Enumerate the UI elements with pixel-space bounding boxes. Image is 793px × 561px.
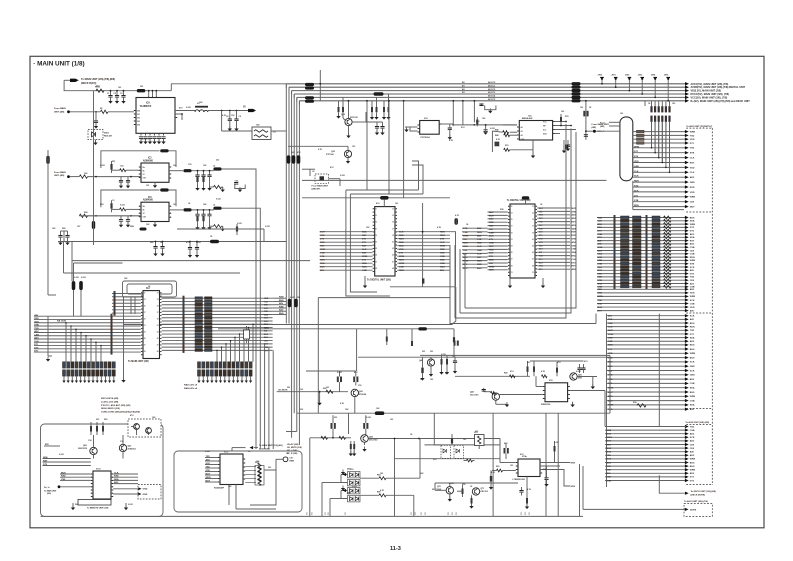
vertical drops far right of bus rows <box>255 337 257 449</box>
svg-text:RXD: RXD <box>477 243 482 245</box>
svg-text:SCK: SCK <box>690 300 695 302</box>
svg-text:CLK: CLK <box>362 249 367 251</box>
ferrite bead L71 <box>522 196 530 199</box>
vertical from bus x585.9 with resistor divider <box>585 101 587 140</box>
wire <box>491 131 493 152</box>
svg-text:RXD: RXD <box>114 476 119 478</box>
wire <box>169 190 176 206</box>
svg-text:AVCC5: AVCC5 <box>488 98 496 101</box>
svg-text:VDD: VDD <box>607 477 612 479</box>
svg-text:D901: D901 <box>104 133 110 135</box>
svg-text:VDD: VDD <box>489 249 494 251</box>
svg-text:STB: STB <box>690 264 695 266</box>
transistor Q71 <box>472 488 479 495</box>
transistor Q60 <box>134 424 140 430</box>
svg-text:11: 11 <box>511 206 513 208</box>
svg-text:RXD: RXD <box>690 187 695 189</box>
svg-text:WRN: WRN <box>690 132 696 134</box>
svg-text:27: 27 <box>511 259 513 261</box>
svg-text:DTA124: DTA124 <box>359 393 367 396</box>
svg-text:SDA: SDA <box>690 220 695 223</box>
svg-text:(LCD BUS): (LCD BUS) <box>259 448 270 450</box>
svg-text:GND: GND <box>264 298 269 300</box>
transistor Q50 <box>361 435 369 443</box>
resistor pair R38 <box>371 107 373 112</box>
svg-text:R59: R59 <box>62 228 65 230</box>
wire <box>231 448 233 451</box>
wire from IC901 right <box>175 113 182 115</box>
svg-text:VDD: VDD <box>608 353 613 355</box>
wire <box>322 482 336 484</box>
IC U6 interface <box>510 204 535 278</box>
svg-text:CSB: CSB <box>690 383 695 385</box>
ground arrows under RA1 <box>63 376 65 380</box>
resistor R44 <box>533 366 535 372</box>
svg-text:31: 31 <box>511 272 513 274</box>
svg-text:BUS: BUS <box>690 345 695 347</box>
svg-text:To MAIN UNIT (4/8): To MAIN UNIT (4/8) <box>128 360 149 363</box>
wire <box>79 215 93 217</box>
capacitor C100 <box>196 242 198 248</box>
svg-text:SCK: SCK <box>264 308 269 310</box>
svg-text:WRN: WRN <box>440 246 446 248</box>
wire <box>354 397 356 414</box>
resistor C60 pair <box>350 444 352 449</box>
svg-text:17: 17 <box>511 226 513 228</box>
junctions <box>565 121 567 123</box>
svg-text:15: 15 <box>511 219 513 221</box>
CPU upper-left short rows <box>112 293 141 295</box>
svg-text:VDD: VDD <box>690 307 695 309</box>
svg-text:11: 11 <box>144 293 146 295</box>
svg-text:WRN: WRN <box>690 396 696 398</box>
svg-text:19: 19 <box>144 319 146 321</box>
svg-text:RXD: RXD <box>279 297 284 299</box>
svg-text:RDN: RDN <box>440 232 445 234</box>
svg-text:MUT: MUT <box>489 246 494 248</box>
wire loops around CPU <box>123 281 177 297</box>
IC U9 regulator <box>518 459 540 477</box>
capacitor C38 <box>376 122 378 126</box>
IC U11 EQ <box>220 454 243 485</box>
svg-text:AD3: AD3 <box>264 336 268 339</box>
svg-text:BUS: BUS <box>320 267 325 269</box>
svg-text:GND: GND <box>440 263 445 265</box>
capacitor C97 <box>155 242 157 247</box>
svg-text:R47: R47 <box>75 503 78 506</box>
capacitor C99 <box>189 242 191 248</box>
svg-text:WRN: WRN <box>463 261 469 263</box>
svg-text:RA_BUS: RA_BUS <box>57 320 67 323</box>
wire <box>499 439 501 445</box>
svg-text:IC11: IC11 <box>224 451 229 453</box>
svg-text:COM0-COM3 (2/8),(5/8),(6/8),(7: COM0-COM3 (2/8),(5/8),(6/8),(7/8),(8/8) <box>101 412 140 414</box>
svg-text:103: 103 <box>326 387 329 389</box>
svg-text:R18: R18 <box>100 204 103 206</box>
svg-text:RST: RST <box>690 240 695 242</box>
svg-text:WRN: WRN <box>608 334 614 336</box>
power bus wires (top) <box>286 83 686 85</box>
svg-text:RDN: RDN <box>440 267 445 269</box>
svg-text:CSB: CSB <box>463 232 468 234</box>
vertical drops onto R1 rows <box>651 122 653 148</box>
svg-text:TXD: TXD <box>607 470 612 472</box>
svg-text:0.022: 0.022 <box>441 354 446 356</box>
svg-text:CSB: CSB <box>489 232 494 234</box>
svg-text:2SC1740: 2SC1740 <box>470 394 479 397</box>
svg-text:C3: C3 <box>112 200 114 202</box>
svg-text:BUS: BUS <box>690 462 695 464</box>
resistor array bank RA2 <box>198 362 201 368</box>
dark cap C55 <box>565 145 568 150</box>
svg-text:RXD: RXD <box>489 222 494 224</box>
wires in dashed box <box>136 429 138 435</box>
wire <box>395 458 501 460</box>
component R67 <box>411 341 413 346</box>
svg-text:STB: STB <box>598 293 603 295</box>
svg-text:RST: RST <box>572 222 577 224</box>
svg-text:STB: STB <box>572 211 577 213</box>
vertical bus ferrite beads row1 <box>287 155 291 164</box>
svg-text:222: 222 <box>216 160 219 162</box>
capacitors under U5 <box>563 140 565 151</box>
svg-text:STB: STB <box>463 228 468 230</box>
resistor R40 <box>441 359 443 365</box>
svg-text:0.022: 0.022 <box>216 199 221 201</box>
svg-text:BUS: BUS <box>279 313 284 315</box>
staircase wires left <box>65 323 67 362</box>
dashed diode box DB2 <box>454 445 464 458</box>
connector CN-D pin rows upper <box>607 315 687 317</box>
svg-text:WRN: WRN <box>206 477 211 479</box>
transistor Q70 <box>446 487 453 494</box>
svg-text:SDA: SDA <box>320 241 325 244</box>
svg-text:0.022: 0.022 <box>352 486 357 488</box>
IC U8 audio driver <box>545 383 568 402</box>
svg-text:100: 100 <box>561 111 564 113</box>
svg-text:AIN: AIN <box>690 318 694 321</box>
resistor stack R62 <box>102 426 104 432</box>
svg-text:WRN: WRN <box>690 296 696 298</box>
svg-text:SDA: SDA <box>489 259 494 262</box>
regulator IC901 <box>136 98 175 134</box>
svg-text:222: 222 <box>140 86 143 88</box>
U6 right pin rows <box>537 207 570 209</box>
rows into IC10 <box>43 458 91 460</box>
capacitor C39 <box>382 122 384 126</box>
svg-text:35: 35 <box>532 219 534 221</box>
svg-text:To AUX UNIT (PQRSTUV): To AUX UNIT (PQRSTUV) <box>686 125 712 128</box>
svg-text:2SB: 2SB <box>578 377 582 379</box>
component C70 <box>451 439 453 444</box>
resistor R23 <box>120 169 126 172</box>
U6 left pin rows <box>488 211 508 213</box>
wire <box>441 123 453 125</box>
svg-text:CLK: CLK <box>114 473 119 475</box>
transistor Q20 <box>351 389 358 396</box>
svg-text:TXD: TXD <box>690 426 695 428</box>
svg-text:(4/8) WH_: (4/8) WH_ <box>312 188 322 191</box>
svg-text:AD3: AD3 <box>463 256 468 259</box>
svg-text:(4/8): (4/8) <box>592 126 597 129</box>
wire y391.7 <box>277 391 348 393</box>
svg-text:C2: C2 <box>114 93 116 95</box>
svg-text:AD3: AD3 <box>608 399 613 402</box>
capacitor C49 <box>485 125 487 129</box>
svg-text:GND: GND <box>598 247 603 249</box>
ground under Q50 <box>364 447 366 450</box>
svg-text:VDD: VDD <box>598 217 603 219</box>
ferrite bead L901 <box>137 89 146 92</box>
ground drops under U6 <box>509 278 511 286</box>
svg-text:AIN: AIN <box>690 309 694 312</box>
svg-text:0.022: 0.022 <box>205 451 210 453</box>
svg-text:RA02-47k x8: RA02-47k x8 <box>184 387 198 390</box>
svg-text:RDN: RDN <box>477 232 482 234</box>
resistor R301 in row <box>637 404 646 407</box>
ferrite bead L95 <box>210 240 219 244</box>
svg-text:AD3: AD3 <box>34 337 39 340</box>
svg-text:RDN: RDN <box>362 267 367 269</box>
resistor R54 <box>379 477 386 480</box>
svg-text:23: 23 <box>375 248 377 250</box>
svg-text:STB: STB <box>34 325 39 327</box>
component C71 <box>490 476 492 482</box>
resistor array bank RA1 <box>63 362 66 368</box>
connector capsule CN-A <box>620 117 633 181</box>
svg-text:11: 11 <box>375 209 377 211</box>
wire top loop <box>101 190 160 207</box>
svg-text:RST: RST <box>463 239 468 241</box>
svg-text:37: 37 <box>157 312 159 314</box>
svg-text:AIN: AIN <box>279 302 283 305</box>
svg-text:BUS: BUS <box>690 349 695 351</box>
svg-text:CLK: CLK <box>477 253 482 255</box>
svg-text:BUS: BUS <box>607 452 612 454</box>
svg-text:To MAIN UNIT (2/8),(7/8),(8/8): To MAIN UNIT (2/8),(7/8),(8/8) <box>81 78 115 81</box>
component columns in CN-B rows <box>614 215 616 220</box>
svg-text:RD5.6M: RD5.6M <box>104 136 112 138</box>
dashed connector boundary right <box>711 128 713 485</box>
svg-text:VDD: VDD <box>34 321 39 323</box>
svg-text:VDD: VDD <box>690 192 695 194</box>
svg-text:STB: STB <box>598 280 603 282</box>
wire <box>47 316 49 356</box>
resistor R24 <box>196 177 198 182</box>
svg-text:AIN: AIN <box>607 472 611 475</box>
svg-text:BUS: BUS <box>607 459 612 461</box>
svg-text:31: 31 <box>392 209 394 211</box>
capacitor C909 <box>236 111 238 120</box>
svg-text:25: 25 <box>511 252 513 254</box>
svg-text:100: 100 <box>390 419 393 421</box>
svg-text:222: 222 <box>297 297 300 299</box>
left rail wire <box>47 150 49 295</box>
svg-text:RST: RST <box>489 263 494 265</box>
svg-text:CLK: CLK <box>690 158 695 160</box>
capacitors under IC901 <box>139 137 143 139</box>
svg-text:Do_In: Do_In <box>44 487 50 489</box>
svg-text:MUT: MUT <box>607 444 612 446</box>
resistor pair block R903 R904 <box>252 127 271 140</box>
wire <box>452 104 454 125</box>
svg-text:DT0: DT0 <box>539 235 542 237</box>
svg-text:BUS: BUS <box>598 307 603 309</box>
svg-text:BUS: BUS <box>690 357 695 359</box>
capacitor C43 <box>483 388 485 392</box>
svg-text:RST: RST <box>477 257 482 259</box>
svg-text:RDN: RDN <box>572 232 577 234</box>
svg-text:WRN: WRN <box>264 327 269 329</box>
resistor R46 <box>556 368 558 373</box>
svg-text:R10: R10 <box>350 469 353 471</box>
wire big loop bottom <box>450 245 596 324</box>
svg-text:To MAIN UNIT: To MAIN UNIT <box>44 489 57 492</box>
svg-text:13: 13 <box>511 213 513 215</box>
ground <box>572 402 574 405</box>
svg-text:SDA: SDA <box>598 253 603 256</box>
svg-text:SDA: SDA <box>690 236 695 239</box>
svg-text:BUS: BUS <box>690 217 695 219</box>
wire <box>302 168 315 170</box>
svg-text:VDD: VDD <box>399 249 404 251</box>
bus left bends into vertical bus <box>285 84 287 88</box>
svg-text:SCK: SCK <box>690 267 695 269</box>
svg-text:A1: A1 <box>521 130 523 133</box>
wire <box>644 101 646 106</box>
svg-text:VDD: VDD <box>608 379 613 381</box>
svg-text:L6: L6 <box>213 166 215 168</box>
wire <box>271 130 286 132</box>
svg-text:A0: A0 <box>521 126 523 129</box>
wire <box>288 145 348 147</box>
svg-text:4.7K: 4.7K <box>527 488 532 491</box>
svg-text:To AUX UNIT (6/8)-(6/8): To AUX UNIT (6/8)-(6/8) <box>685 421 709 424</box>
wires right of U9 <box>540 462 570 464</box>
wire <box>88 215 141 217</box>
wire <box>250 470 276 505</box>
svg-text:39: 39 <box>392 235 394 237</box>
svg-text:33: 33 <box>532 213 534 215</box>
ferrite bead L63 <box>418 327 427 330</box>
svg-text:19: 19 <box>511 232 513 234</box>
wire pair down to audio box2 <box>255 245 257 337</box>
svg-text:STB: STB <box>634 200 639 202</box>
resistor R33 <box>120 208 126 211</box>
wire <box>130 297 132 314</box>
svg-text:GND: GND <box>143 489 148 491</box>
right rows labels <box>273 297 286 299</box>
wire y376.3 <box>455 375 530 377</box>
wire vertical pair right <box>579 464 581 516</box>
wire <box>364 442 366 445</box>
svg-text:LB+5V (5/8): LB+5V (5/8) <box>287 444 299 446</box>
svg-text:· MAIN UNIT (1/8): · MAIN UNIT (1/8) <box>33 61 84 68</box>
svg-text:GND: GND <box>572 245 577 247</box>
resistor pair R53b <box>363 423 365 429</box>
wire <box>419 439 421 479</box>
svg-text:AVCC3: AVCC3 <box>488 91 496 94</box>
wire <box>449 494 451 499</box>
resistor R74 <box>526 498 528 504</box>
svg-text:C93: C93 <box>188 164 191 166</box>
ferrite bead L33 <box>213 207 221 210</box>
wire <box>108 111 134 113</box>
wire <box>530 360 584 362</box>
wire <box>366 121 383 123</box>
svg-text:SCK: SCK <box>634 176 639 178</box>
connector CN-D pin rows lower <box>607 348 687 350</box>
svg-text:WRN: WRN <box>690 459 696 461</box>
svg-text:29: 29 <box>375 268 377 270</box>
svg-text:SDA: SDA <box>463 245 468 248</box>
component D40 <box>421 368 423 374</box>
connector circle CN11 <box>283 457 288 462</box>
connector CN-E pin rows <box>605 426 686 428</box>
junction dots <box>110 90 112 92</box>
svg-text:TXD: TXD <box>264 301 268 303</box>
svg-text:IC9b: IC9b <box>522 456 527 458</box>
svg-text:R38: R38 <box>500 209 503 211</box>
ferrite bead L34 <box>305 100 314 103</box>
svg-text:100: 100 <box>352 146 355 148</box>
resistor stack R61 <box>96 426 98 432</box>
svg-text:IN+: IN+ <box>143 206 146 208</box>
wire <box>433 413 435 445</box>
svg-text:RXD: RXD <box>440 249 445 251</box>
ferrite bead L23 <box>213 167 221 170</box>
svg-text:CLK: CLK <box>477 246 482 248</box>
svg-text:AVCC0: AVCC0 <box>488 81 496 84</box>
svg-text:R2: R2 <box>100 108 102 110</box>
svg-text:AVCC4: AVCC4 <box>488 95 496 98</box>
svg-text:R10: R10 <box>433 459 436 461</box>
ferrite bead L32 <box>183 208 191 211</box>
ferrite bead stack L36-L41 <box>572 82 581 85</box>
svg-text:IN0: IN0 <box>137 111 140 113</box>
svg-text:31: 31 <box>532 206 534 208</box>
svg-text:B+(9V), MAIN UNIT (2/8),(7/8),: B+(9V), MAIN UNIT (2/8),(7/8),(5/8) and … <box>691 100 751 103</box>
svg-text:23: 23 <box>511 246 513 248</box>
svg-text:25: 25 <box>144 338 146 340</box>
svg-text:GND: GND <box>143 494 148 496</box>
svg-text:SCK: SCK <box>690 437 695 439</box>
wire top loop <box>101 151 160 168</box>
wire out <box>169 209 183 211</box>
svg-text:C36: C36 <box>120 441 123 443</box>
inductor L902 <box>175 110 195 112</box>
wire <box>388 190 390 194</box>
svg-text:From MAIN UNIT: From MAIN UNIT <box>312 185 329 188</box>
svg-text:4.7K: 4.7K <box>437 226 442 229</box>
svg-text:33: 33 <box>157 299 159 301</box>
R1 connector block border <box>632 181 634 210</box>
svg-text:4.7K: 4.7K <box>541 370 546 373</box>
svg-text:WRN: WRN <box>690 197 696 199</box>
ferrite bead L22 <box>183 169 191 172</box>
dashed box jumper <box>315 174 329 183</box>
rows left of IC10 <box>60 473 91 475</box>
svg-text:C1: C1 <box>107 93 109 95</box>
CPU left bus rows <box>34 315 141 317</box>
svg-text:AD3: AD3 <box>690 378 695 381</box>
svg-text:WRN: WRN <box>690 353 696 355</box>
svg-text:RST: RST <box>572 266 577 268</box>
svg-text:0.022: 0.022 <box>490 128 495 130</box>
svg-text:33: 33 <box>392 215 394 217</box>
svg-text:BUS: BUS <box>489 236 494 238</box>
component C63 <box>422 278 424 283</box>
